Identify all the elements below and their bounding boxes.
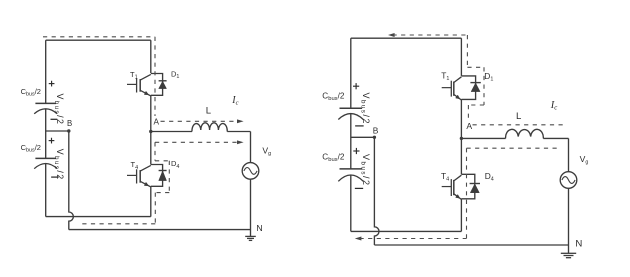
svg-text:D4: D4 xyxy=(485,171,494,183)
svg-text:L: L xyxy=(516,111,522,122)
svg-text:N: N xyxy=(575,239,582,250)
svg-text:B: B xyxy=(67,119,72,128)
svg-text:T1: T1 xyxy=(441,71,449,83)
svg-text:Ic: Ic xyxy=(550,100,558,112)
svg-text:Vbus/2: Vbus/2 xyxy=(53,94,65,126)
svg-text:B: B xyxy=(373,125,379,135)
svg-text:D4: D4 xyxy=(171,159,179,170)
svg-text:D1: D1 xyxy=(171,70,179,81)
svg-text:Vbus/2: Vbus/2 xyxy=(360,93,372,126)
svg-text:N: N xyxy=(256,223,262,233)
svg-text:T4: T4 xyxy=(131,160,139,171)
svg-text:Cbus/2: Cbus/2 xyxy=(21,87,41,98)
svg-text:A: A xyxy=(466,121,472,131)
svg-text:Cbus/2: Cbus/2 xyxy=(322,153,345,164)
svg-text:Ic: Ic xyxy=(231,95,238,107)
svg-text:Vbus/2: Vbus/2 xyxy=(360,154,372,187)
svg-text:T1: T1 xyxy=(130,70,138,81)
svg-text:A: A xyxy=(154,118,160,127)
svg-text:Vg: Vg xyxy=(262,145,271,157)
svg-text:Cbus/2: Cbus/2 xyxy=(21,143,41,154)
svg-text:Cbus/2: Cbus/2 xyxy=(322,92,345,103)
svg-text:T4: T4 xyxy=(441,171,449,183)
svg-text:Vbus/2: Vbus/2 xyxy=(53,149,65,181)
svg-text:Vg: Vg xyxy=(580,154,589,166)
svg-text:L: L xyxy=(206,106,212,117)
svg-text:D1: D1 xyxy=(484,71,493,83)
